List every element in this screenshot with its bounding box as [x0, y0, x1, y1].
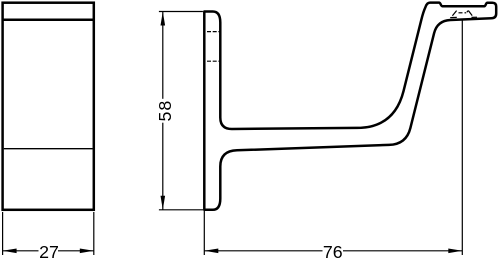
front view saddle edge line	[3, 18, 94, 21]
hidden hole dashes lower	[207, 60, 220, 62]
saddle countersink hidden dashes	[450, 11, 477, 18]
dimension 58 extension line bottom	[159, 209, 203, 211]
svg-text:58: 58	[155, 100, 175, 122]
dimension 76 arrow right	[448, 249, 462, 254]
dimension 76 extension line left	[203, 211, 205, 256]
dimension 76 extension line right (hole centre line)	[461, 21, 463, 256]
dimension 58 arrow bottom	[161, 196, 166, 210]
dimension 27 line	[3, 250, 39, 252]
hidden hole dashes upper	[207, 31, 220, 33]
dimension 76 line	[204, 250, 322, 252]
front view arm edge thin line	[4, 148, 93, 150]
svg-text:27: 27	[39, 242, 59, 259]
dimension 58 line	[162, 12, 164, 99]
dimension 58 arrow top	[161, 12, 166, 26]
dimension 58 extension line top	[159, 11, 203, 13]
dimension 76 arrow left	[204, 249, 218, 254]
side view bracket profile	[204, 3, 496, 210]
front view outline	[3, 3, 94, 210]
dimension 27 extension line left	[2, 212, 4, 255]
dimension 27 arrow left	[3, 249, 17, 254]
dimension 27 extension line right	[93, 212, 95, 255]
svg-text:76: 76	[323, 242, 343, 259]
dimension 27 arrow right	[80, 249, 94, 254]
